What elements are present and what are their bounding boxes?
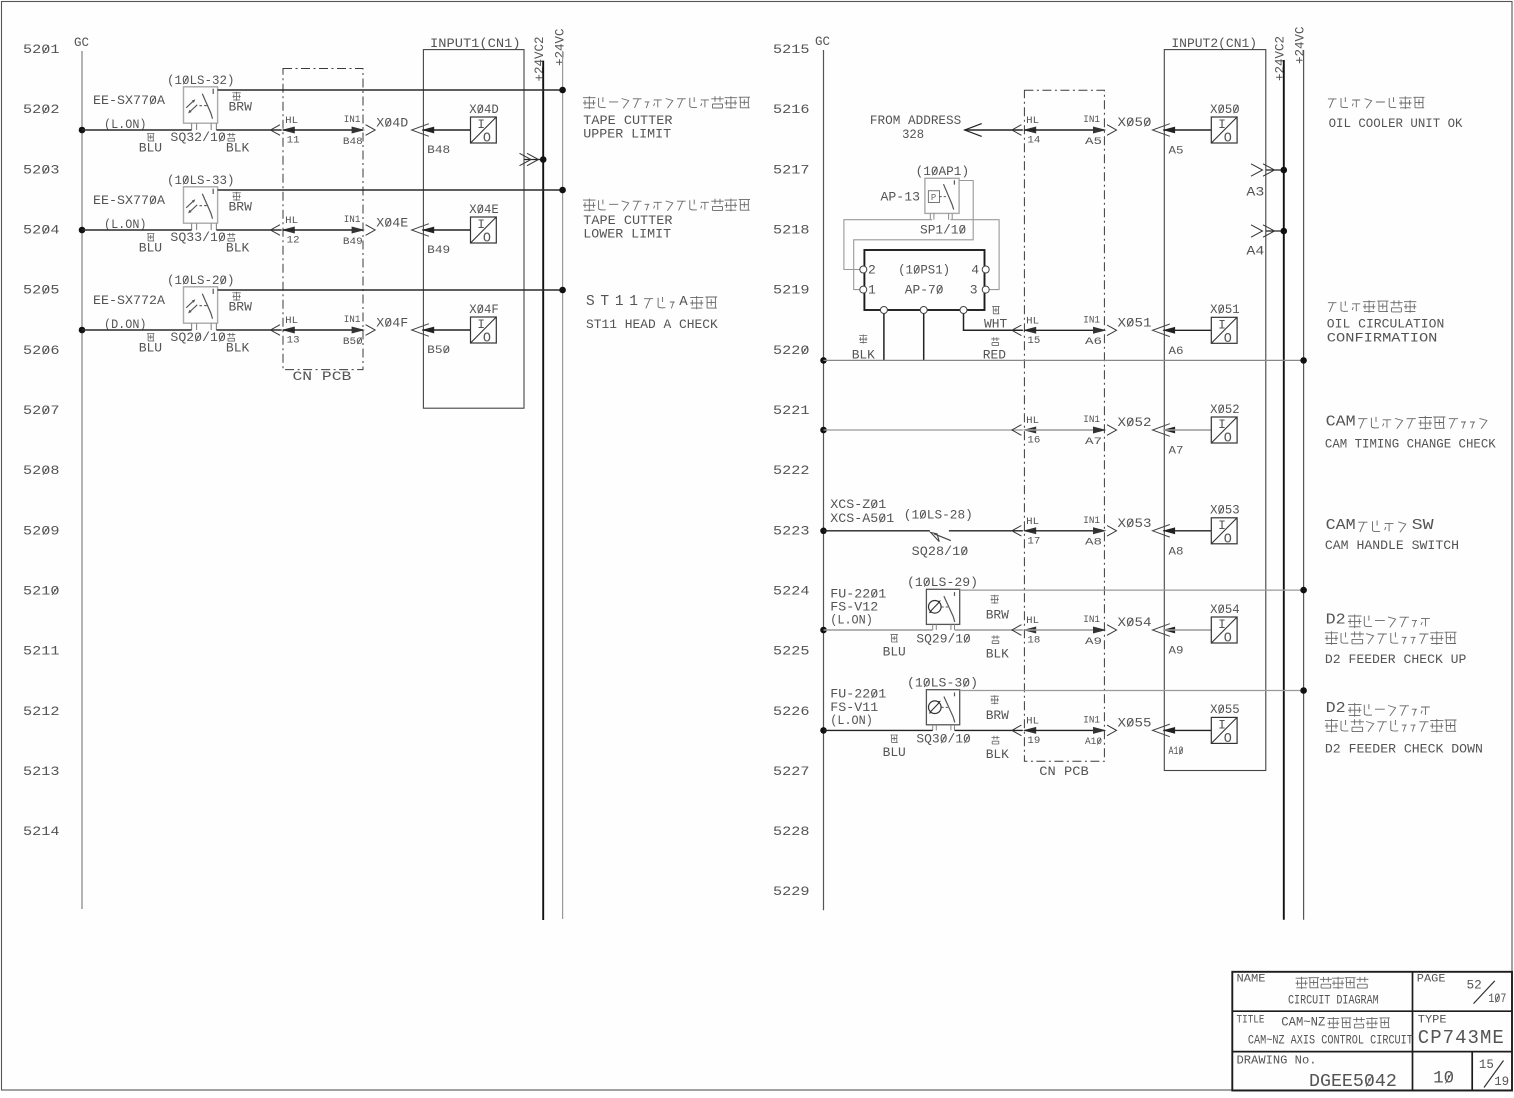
svg-text:+24VC: +24VC: [554, 28, 568, 66]
wire INPUT2 to +24VC2 chevron A4: [1246, 225, 1287, 259]
svg-text:O: O: [483, 232, 491, 247]
svg-text:SW: SW: [1412, 517, 1434, 534]
svg-text:IN1: IN1: [1083, 114, 1100, 126]
svg-text:15: 15: [1479, 1058, 1494, 1072]
svg-text:WHT: WHT: [984, 317, 1007, 332]
svg-text:5225: 5225: [773, 644, 810, 659]
svg-text:O: O: [1224, 332, 1232, 347]
wire GC to sensor SQ30/10: [820, 727, 933, 734]
svg-text:X04F: X04F: [376, 316, 408, 331]
svg-text:O: O: [1224, 532, 1232, 547]
svg-text:A5: A5: [1169, 146, 1184, 158]
connector pin HL 18 (CN PCB right-half left edge): [1012, 615, 1040, 647]
svg-text:5218: 5218: [773, 223, 810, 238]
description: OIL CIRCULATION CONFIRMATION: [1327, 300, 1445, 345]
svg-text:HL: HL: [1026, 716, 1039, 728]
wire color labels for SQ29/10: [883, 595, 1009, 662]
svg-text:52: 52: [1467, 978, 1482, 992]
connector pin IN1 A5: [1083, 114, 1116, 148]
net +24VC (right): [1293, 26, 1307, 919]
svg-text:5224: 5224: [773, 584, 810, 599]
svg-text:A7: A7: [1169, 446, 1184, 458]
svg-text:D2 FEEDER CHECK UP: D2 FEEDER CHECK UP: [1325, 653, 1467, 667]
svg-text:X052: X052: [1210, 402, 1240, 417]
svg-text:5220: 5220: [773, 343, 810, 358]
connector pin IN1 B49 (CN PCB right edge): [343, 214, 375, 248]
svg-text:5215: 5215: [773, 42, 810, 57]
svg-text:INPUT2(CN1): INPUT2(CN1): [1171, 37, 1257, 51]
net label X052: [1118, 415, 1152, 430]
svg-text:5205: 5205: [23, 283, 60, 298]
connector pin IN1 B50 (CN PCB right edge): [343, 314, 375, 348]
description: D2 FEEDER CHECK UP: [1325, 612, 1467, 667]
svg-text:I: I: [477, 117, 485, 132]
wire GC to sensor SQ33/10: [79, 227, 192, 234]
connector pin IN1 A10: [1083, 715, 1116, 749]
svg-text:(L.ON): (L.ON): [830, 613, 873, 628]
wire HL to IN1 inside CN PCB row 17: [1024, 530, 1104, 532]
svg-text:BLK: BLK: [226, 341, 250, 356]
svg-text:NAME: NAME: [1237, 974, 1266, 986]
connector pin HL 14 (CN PCB right-half left edge): [1012, 115, 1040, 146]
svg-text:OIL COOLER UNIT OK: OIL COOLER UNIT OK: [1329, 117, 1463, 131]
svg-text:X051: X051: [1210, 302, 1240, 317]
svg-text:5213: 5213: [23, 764, 60, 779]
svg-text:O: O: [483, 332, 491, 347]
wire sensor SQ30/10 to CN PCB: [955, 729, 1023, 731]
svg-text:AP-70: AP-70: [905, 283, 944, 298]
wire GC to sensor SQ20/10: [79, 327, 192, 334]
svg-text:CAM: CAM: [1326, 517, 1356, 534]
svg-text:X04E: X04E: [469, 202, 499, 217]
svg-text:I: I: [477, 317, 485, 332]
net GC (right): [815, 35, 830, 911]
svg-text:(L.ON): (L.ON): [830, 713, 873, 728]
svg-text:+24VC2: +24VC2: [533, 36, 547, 81]
I/O point X04E: [469, 202, 499, 247]
wire INPUT2 edge to I/O X050: [1163, 129, 1211, 131]
wire HL to IN1 inside CN PCB row 11: [283, 129, 363, 131]
svg-text:HL: HL: [1026, 615, 1039, 627]
svg-text:5229: 5229: [773, 884, 810, 899]
svg-text:5209: 5209: [23, 523, 60, 538]
svg-text:A4: A4: [1246, 245, 1264, 259]
connector CN PCB (right, dashed): [1024, 90, 1104, 779]
connector pin HL 17 (CN PCB right-half left edge): [1012, 516, 1040, 548]
svg-text:X052: X052: [1118, 415, 1152, 430]
net +24VC2 (right): [1273, 36, 1287, 920]
svg-text:B48: B48: [427, 145, 450, 157]
svg-text:BRW: BRW: [986, 708, 1009, 723]
svg-text:(10LS-20): (10LS-20): [167, 273, 235, 288]
I/O point X04D: [469, 102, 499, 147]
svg-text:CAM HANDLE SWITCH: CAM HANDLE SWITCH: [1325, 539, 1459, 553]
svg-text:5221: 5221: [773, 403, 810, 418]
description: TAPE CUTTER UPPER LIMIT: [583, 96, 750, 141]
svg-text:UPPER LIMIT: UPPER LIMIT: [583, 127, 671, 142]
wire HL to IN1 inside CN PCB row 14: [1024, 129, 1104, 131]
svg-text:CAM~NZ AXIS CONTROL CIRCUIT: CAM~NZ AXIS CONTROL CIRCUIT: [1248, 1032, 1413, 1047]
svg-text:19: 19: [1494, 1075, 1509, 1089]
svg-text:3: 3: [970, 283, 978, 298]
svg-text:B48: B48: [343, 136, 363, 148]
svg-text:ST11 HEAD A CHECK: ST11 HEAD A CHECK: [586, 317, 718, 332]
right line-number column 5215-5229: [773, 42, 810, 899]
photoelectric sensor SQ33/10 (10LS-33) EE-SX770A: [93, 173, 235, 232]
net +24VC (left): [554, 28, 568, 919]
I/O point X054: [1210, 602, 1240, 647]
description: D2 FEEDER CHECK DOWN: [1325, 700, 1483, 756]
wire sensor SQ33/10 top to +24VC: [218, 187, 566, 194]
svg-text:I: I: [1218, 718, 1226, 733]
signal FROM ADDRESS 328: [870, 113, 1023, 142]
svg-text:XCS-A501: XCS-A501: [830, 511, 894, 526]
svg-text:5212: 5212: [23, 704, 60, 719]
svg-text:O: O: [1224, 632, 1232, 647]
wire INPUT2 edge to I/O X052: [1163, 429, 1211, 431]
connector pin HL 16 (CN PCB right-half left edge): [1012, 415, 1040, 446]
wire INPUT2 edge to I/O X055: [1163, 729, 1211, 731]
svg-text:I: I: [1218, 518, 1226, 533]
svg-text:5211: 5211: [23, 644, 60, 659]
svg-text:X04E: X04E: [376, 216, 408, 231]
net label X04E: [376, 216, 408, 231]
net GC (left): [74, 36, 89, 909]
svg-text:CN PCB: CN PCB: [293, 369, 352, 384]
svg-text:B50: B50: [427, 345, 450, 357]
svg-text:X04D: X04D: [469, 102, 499, 117]
net +24VC2 (left): [533, 36, 547, 920]
svg-text:A8: A8: [1169, 547, 1184, 559]
wire INPUT1 edge to I/O X04E: [422, 229, 470, 231]
svg-text:I: I: [1218, 417, 1226, 432]
svg-text:(10LS-28): (10LS-28): [904, 507, 973, 522]
svg-text:OIL CIRCULATION: OIL CIRCULATION: [1327, 318, 1445, 332]
wire GC to sensor SQ32/10: [79, 127, 192, 134]
svg-text:(10LS-30): (10LS-30): [907, 676, 978, 691]
wire sensor SQ32/10 top to +24VC: [218, 87, 566, 94]
svg-text:IN1: IN1: [344, 214, 361, 226]
svg-text:IN1: IN1: [1083, 515, 1100, 527]
svg-text:5208: 5208: [23, 463, 60, 478]
pressure switch AP-13 (10AP1) SP1/10: [881, 164, 970, 238]
svg-text:I: I: [1218, 617, 1226, 632]
svg-text:5203: 5203: [23, 162, 60, 177]
wire color labels for SQ30/10: [883, 695, 1009, 762]
svg-text:PAGE: PAGE: [1417, 974, 1446, 986]
svg-text:5219: 5219: [773, 283, 810, 298]
svg-text:P: P: [931, 193, 936, 203]
svg-text:BLU: BLU: [883, 745, 906, 760]
connector pin IN1 B48 (CN PCB right edge): [343, 114, 375, 148]
svg-text:A3: A3: [1246, 186, 1264, 200]
connector pin A5 (INPUT2 edge): [1153, 124, 1184, 158]
svg-text:X054: X054: [1210, 602, 1240, 617]
svg-text:SP1/10: SP1/10: [920, 222, 966, 237]
svg-text:CIRCUIT DIAGRAM: CIRCUIT DIAGRAM: [1288, 992, 1379, 1007]
svg-text:X050: X050: [1210, 102, 1240, 117]
svg-text:BLU: BLU: [139, 141, 162, 156]
svg-text:17: 17: [1027, 535, 1040, 547]
svg-text:HL: HL: [1026, 516, 1039, 528]
svg-text:X050: X050: [1118, 115, 1152, 130]
wire AP-13 top to AP-70 pin 1: [854, 181, 974, 290]
I/O point X04F: [469, 302, 499, 347]
connector pin IN1 A6: [1083, 315, 1116, 349]
connector pin A7 (INPUT2 edge): [1153, 424, 1184, 458]
svg-text:X053: X053: [1210, 503, 1240, 518]
svg-text:HL: HL: [1026, 115, 1039, 127]
connector pin HL 11 (CN PCB left edge): [271, 115, 300, 146]
svg-text:10: 10: [1433, 1069, 1454, 1089]
svg-text:I: I: [1218, 318, 1226, 333]
I/O point X053: [1210, 503, 1240, 548]
I/O point X055: [1210, 702, 1240, 747]
connector pin IN1 A9: [1083, 614, 1116, 648]
svg-text:4: 4: [971, 262, 979, 277]
left line-number column 5201-5214: [23, 42, 60, 839]
description: ST11 HEAD A CHECK: [586, 294, 718, 332]
net label X054: [1118, 615, 1152, 630]
svg-text:CP743ME: CP743ME: [1418, 1027, 1504, 1049]
svg-text:IN1: IN1: [344, 114, 361, 126]
svg-text:328: 328: [902, 127, 924, 142]
svg-text:BLU: BLU: [139, 341, 162, 356]
wire AP-13 pin to AP-70 pin 2: [844, 220, 932, 270]
svg-text:CAM~NZ: CAM~NZ: [1281, 1014, 1325, 1029]
svg-text:HL: HL: [285, 115, 298, 127]
wire INPUT2 to +24VC2 chevron A3: [1246, 164, 1287, 200]
power supply unit AP-70 (10PS1): [860, 250, 989, 314]
svg-text:5206: 5206: [23, 343, 60, 358]
svg-text:5202: 5202: [23, 102, 60, 117]
wire HL to IN1 inside CN PCB row 12: [283, 229, 363, 231]
svg-text:12: 12: [287, 235, 300, 247]
svg-text:5201: 5201: [23, 42, 60, 57]
wire sensor SQ30/10 top to +24VC: [960, 687, 1307, 694]
svg-text:O: O: [1224, 132, 1232, 147]
svg-text:IN1: IN1: [1083, 614, 1100, 626]
svg-text:INPUT1(CN1): INPUT1(CN1): [430, 37, 521, 51]
connector pin HL 13 (CN PCB left edge): [271, 315, 300, 346]
wire sensor SQ33/10 to CN PCB pin 12: [216, 229, 281, 231]
wire INPUT1 edge to I/O X04F: [422, 329, 470, 331]
svg-text:5214: 5214: [23, 824, 60, 839]
wire sensor SQ32/10 to CN PCB pin 11: [216, 129, 281, 131]
wire INPUT2 edge to I/O X054: [1163, 629, 1211, 631]
connector pin IN1 A7: [1083, 414, 1116, 448]
svg-text:BRW: BRW: [229, 300, 253, 315]
svg-text:EE-SX770A: EE-SX770A: [93, 193, 165, 208]
svg-text:FROM ADDRESS: FROM ADDRESS: [870, 113, 962, 128]
wire sensor SQ20/10 to CN PCB pin 13: [216, 329, 281, 331]
title block DRAWING No. cell: [1237, 1054, 1510, 1092]
svg-text:A9: A9: [1085, 636, 1102, 648]
wire HL to IN1 inside CN PCB row 15: [1024, 329, 1104, 331]
connector pin A9 (INPUT2 edge): [1153, 624, 1184, 658]
svg-text:HL: HL: [1026, 415, 1039, 427]
connector pin B50 (INPUT1 edge): [412, 324, 451, 357]
svg-text:IN1: IN1: [1083, 414, 1100, 426]
svg-text:BLU: BLU: [139, 241, 162, 256]
svg-text:A6: A6: [1085, 336, 1102, 348]
svg-text:BRW: BRW: [229, 200, 253, 215]
wire HL to IN1 inside CN PCB row 13: [283, 329, 363, 331]
wire HL to IN1 inside CN PCB row 18: [1024, 629, 1104, 631]
svg-text:HL: HL: [1026, 316, 1039, 328]
svg-text:BRW: BRW: [986, 607, 1009, 622]
svg-text:BLK: BLK: [226, 141, 250, 156]
svg-text:X053: X053: [1118, 516, 1152, 531]
fiber sensor SQ29/10 (10LS-29) FS-V12: [830, 575, 978, 630]
wire GC to CN PCB row X052: [820, 427, 1023, 434]
fiber sensor SQ30/10 (10LS-30) FS-V11: [830, 676, 978, 731]
connector pin A10 (INPUT2 edge): [1153, 724, 1184, 758]
description: TAPE CUTTER LOWER LIMIT: [583, 199, 750, 242]
svg-text:DGEE5042: DGEE5042: [1309, 1072, 1397, 1092]
svg-text:IN1: IN1: [344, 314, 361, 326]
svg-text:15: 15: [1027, 335, 1040, 347]
svg-text:I: I: [477, 217, 485, 232]
svg-text:5217: 5217: [773, 162, 810, 177]
limit switch SQ28/10 (10LS-28) XCS-Z01/XCS-A501: [830, 497, 973, 559]
connector INPUT2(CN1): [1164, 37, 1266, 771]
net label X051: [1118, 315, 1152, 330]
svg-text:A9: A9: [1169, 646, 1184, 658]
wire INPUT1 to +24VC2 with chevron: [520, 153, 547, 165]
wire HL to IN1 inside CN PCB row 16: [1024, 429, 1104, 431]
svg-text:TITLE: TITLE: [1237, 1015, 1265, 1027]
wire GC to switch SQ28: [820, 528, 930, 535]
wire sensor SQ20/10 top to +24VC: [218, 287, 566, 294]
svg-text:5210: 5210: [23, 584, 60, 599]
svg-text:TYPE: TYPE: [1418, 1015, 1447, 1027]
svg-text:B49: B49: [343, 236, 363, 248]
svg-text:HL: HL: [285, 315, 298, 327]
svg-text:+24VC: +24VC: [1293, 26, 1307, 64]
svg-text:A7: A7: [1085, 436, 1102, 448]
connector pin HL 12 (CN PCB left edge): [271, 215, 300, 246]
svg-text:B49: B49: [427, 245, 450, 257]
wire AP-70 middle terminal to GC row: [923, 314, 925, 361]
svg-text:5223: 5223: [773, 523, 810, 538]
svg-text:I: I: [1218, 117, 1226, 132]
svg-text:CAM TIMING CHANGE CHECK: CAM TIMING CHANGE CHECK: [1325, 438, 1496, 452]
wire INPUT2 edge to I/O X053: [1163, 530, 1211, 532]
svg-text:X054: X054: [1118, 615, 1152, 630]
svg-text:O: O: [1224, 432, 1232, 447]
description: CAM TIMING CHANGE CHECK: [1325, 413, 1496, 451]
svg-text:(10LS-32): (10LS-32): [167, 73, 235, 88]
connector pin B49 (INPUT1 edge): [412, 224, 451, 257]
svg-text:A5: A5: [1085, 136, 1102, 148]
net label X055: [1118, 716, 1152, 731]
svg-text:X04F: X04F: [469, 302, 499, 317]
wire sensor SQ29/10 top to +24VC: [960, 587, 1307, 594]
svg-text:SQ29/10: SQ29/10: [916, 631, 970, 646]
svg-text:LOWER LIMIT: LOWER LIMIT: [583, 227, 671, 242]
svg-text:EE-SX770A: EE-SX770A: [93, 93, 165, 108]
svg-text:SQ33/10: SQ33/10: [170, 230, 226, 245]
svg-text:O: O: [1224, 732, 1232, 747]
net label X04D: [376, 116, 408, 131]
svg-text:CAM: CAM: [1326, 413, 1356, 430]
I/O point X052: [1210, 402, 1240, 447]
wire AP-70 terminal BLK to GC row: [852, 314, 884, 363]
svg-text:19: 19: [1027, 735, 1040, 747]
net label X053: [1118, 516, 1152, 531]
connector CN PCB (left, dashed): [283, 69, 363, 385]
svg-text:D2 FEEDER CHECK DOWN: D2 FEEDER CHECK DOWN: [1325, 743, 1483, 757]
svg-text:HL: HL: [285, 215, 298, 227]
svg-text:16: 16: [1027, 435, 1040, 447]
svg-text:EE-SX772A: EE-SX772A: [93, 293, 165, 308]
connector pin A8 (INPUT2 edge): [1153, 525, 1184, 559]
wire sensor SQ29/10 to CN PCB: [955, 629, 1023, 631]
connector pin B48 (INPUT1 edge): [412, 124, 451, 157]
description: CAM HANDLE SWITCH: [1325, 517, 1459, 553]
wire GC bus row 5220 to +24VC: [820, 357, 1307, 364]
svg-text:IN1: IN1: [1083, 315, 1100, 327]
svg-text:D2: D2: [1326, 700, 1346, 717]
svg-text:1: 1: [868, 283, 876, 298]
svg-text:X055: X055: [1118, 716, 1152, 731]
svg-text:D2: D2: [1326, 612, 1346, 629]
svg-text:5228: 5228: [773, 824, 810, 839]
svg-text:2: 2: [868, 262, 876, 277]
wire AP-70 terminal WHT/RED to X051: [964, 306, 1023, 362]
title block PAGE cell 52/107: [1417, 974, 1507, 1006]
svg-text:CN PCB: CN PCB: [1039, 764, 1089, 779]
svg-text:CONFIRMATION: CONFIRMATION: [1327, 331, 1438, 345]
svg-text:SQ28/10: SQ28/10: [912, 544, 969, 559]
title block TITLE cell: [1237, 1014, 1414, 1047]
svg-text:GC: GC: [74, 36, 89, 50]
svg-text:(10AP1): (10AP1): [916, 164, 970, 179]
svg-text:18: 18: [1027, 635, 1040, 647]
title block TYPE cell CP743ME: [1418, 1015, 1504, 1049]
svg-text:5226: 5226: [773, 704, 810, 719]
svg-text:X051: X051: [1118, 315, 1152, 330]
I/O point X051: [1210, 302, 1240, 347]
svg-text:BLK: BLK: [226, 241, 250, 256]
wire INPUT1 edge to I/O X04D: [422, 129, 470, 131]
svg-text:A6: A6: [1169, 346, 1184, 358]
svg-text:DRAWING No.: DRAWING No.: [1237, 1054, 1317, 1068]
svg-text:BLK: BLK: [986, 647, 1009, 662]
svg-text:(10LS-33): (10LS-33): [167, 173, 235, 188]
svg-text:14: 14: [1027, 135, 1040, 147]
svg-text:O: O: [483, 132, 491, 147]
svg-text:13: 13: [287, 335, 300, 347]
svg-text:5216: 5216: [773, 102, 810, 117]
svg-text:X055: X055: [1210, 702, 1240, 717]
connector pin A6 (INPUT2 edge): [1153, 324, 1184, 358]
connector pin IN1 A8: [1083, 515, 1116, 549]
connector pin HL 15 (CN PCB right-half left edge): [1012, 316, 1040, 347]
svg-text:BLK: BLK: [986, 747, 1009, 762]
svg-text:A10: A10: [1169, 746, 1184, 758]
svg-text:IN1: IN1: [1083, 715, 1100, 727]
svg-text:A: A: [679, 294, 688, 310]
svg-text:B50: B50: [343, 336, 363, 348]
svg-text:11: 11: [287, 135, 300, 147]
photoelectric sensor SQ20/10 (10LS-20) EE-SX772A: [93, 273, 235, 332]
svg-text:A8: A8: [1085, 537, 1102, 549]
wire AP-13 pin to AP-70 pin 3: [950, 220, 999, 290]
description: OIL COOLER UNIT OK: [1328, 96, 1463, 131]
net label X04F: [376, 316, 408, 331]
